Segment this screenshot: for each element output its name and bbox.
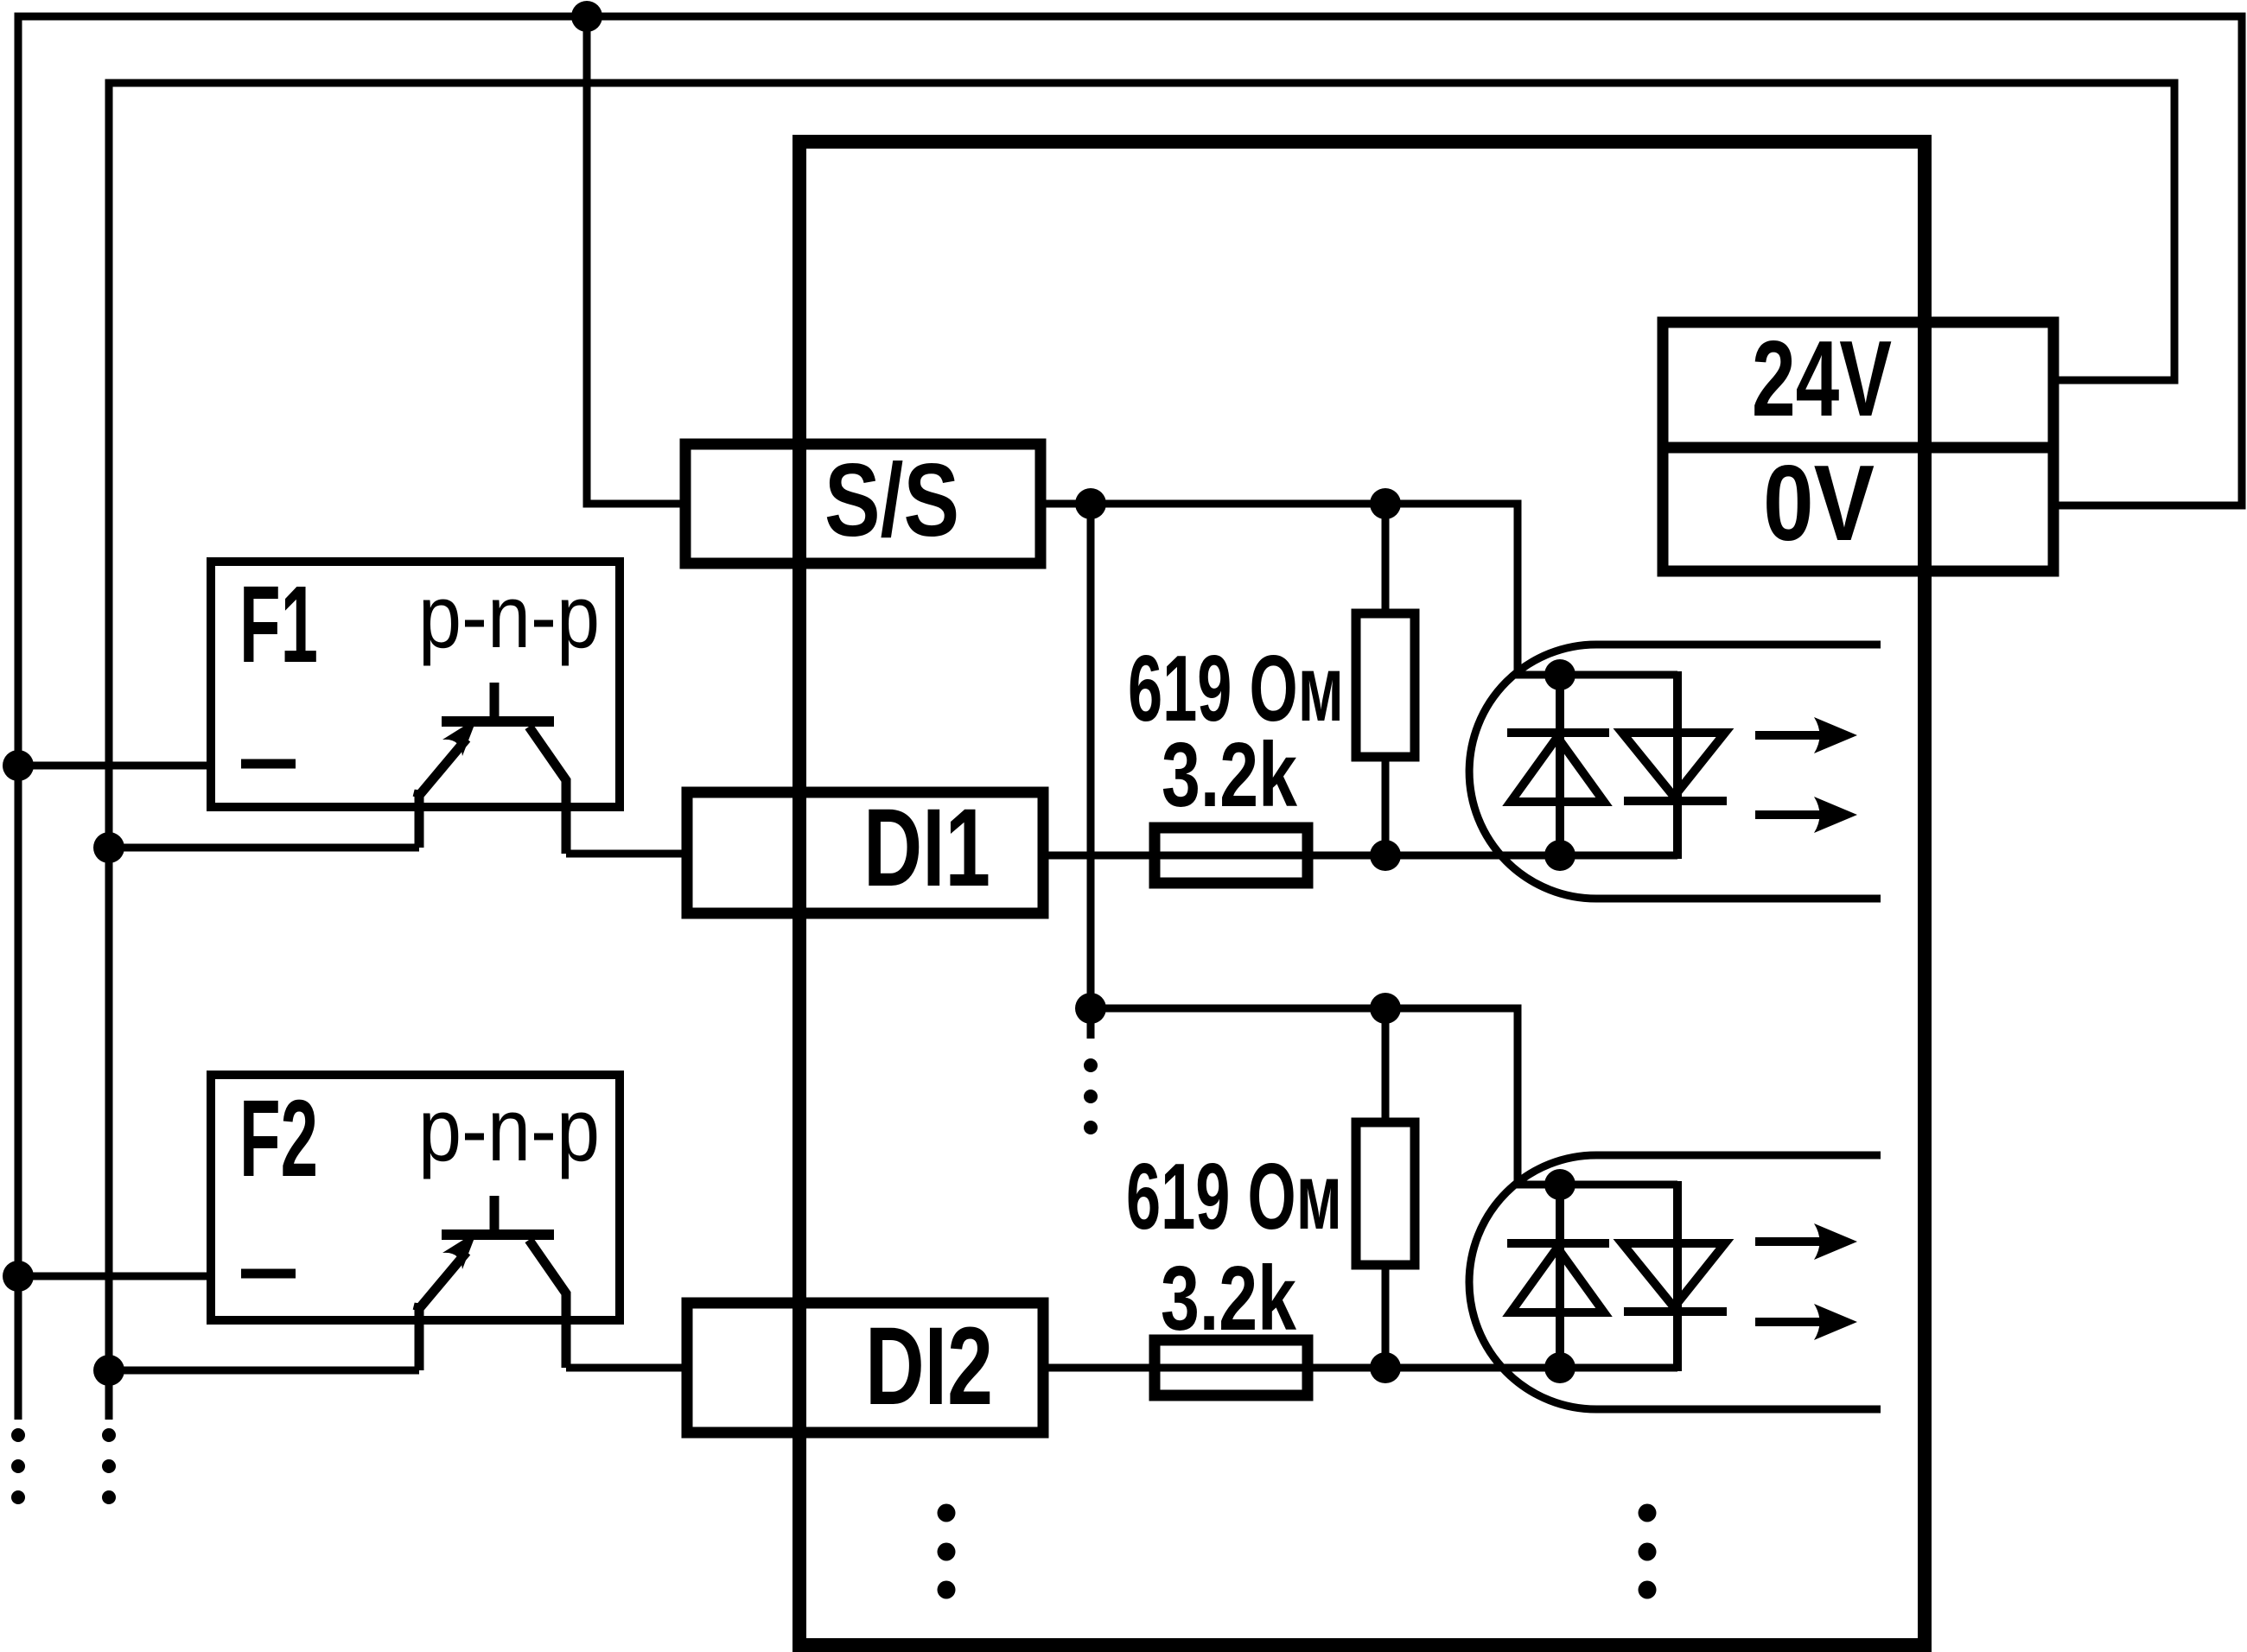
transistor Q2 emitter arrowhead <box>442 1231 477 1269</box>
wire S/S net to channel 1 <box>1041 504 1677 675</box>
wire F1 minus terminal from 24V rail <box>18 762 211 770</box>
divider of 24V / 0V terminal block <box>1663 442 2053 454</box>
ellipsis dots more sensors on 0V rail <box>102 1428 116 1504</box>
optocoupler U1 loop right side <box>1673 671 1682 859</box>
ellipsis dots below channel 2 branch node <box>1084 1058 1098 1134</box>
transistor Q2 emitter diagonal <box>417 1252 467 1311</box>
svg-text:DI2: DI2 <box>865 1305 993 1428</box>
junction LED1 anode top <box>1544 659 1575 690</box>
wire F2 minus terminal from 24V rail <box>18 1273 211 1280</box>
device unit thick enclosure box <box>799 142 1925 1645</box>
svg-text:0V: 0V <box>1763 444 1875 563</box>
junction 24V rail / F2 minus wire <box>3 1261 34 1292</box>
wire F2 emitter from 0V rail <box>109 1367 419 1375</box>
optocoupler U1 bottom tangent line <box>1596 895 1881 903</box>
minus terminal mark of F2 <box>241 1269 296 1279</box>
transistor Q2 base stub <box>490 1196 500 1235</box>
transistor Q1 collector diagonal and lead down <box>529 727 566 854</box>
optocoupler U1 top tangent line <box>1596 641 1881 649</box>
diode D1b triangle down <box>1622 733 1725 797</box>
resistor R2 619 Ом body <box>1356 1122 1415 1265</box>
resistor R1 619 Ом body <box>1356 613 1415 757</box>
terminal DI1 box <box>687 792 1043 913</box>
transistor Q2 emitter lead with jog to emitter wire <box>417 1304 419 1370</box>
diode D2a triangle up <box>1511 1248 1604 1312</box>
resistor R3 3.2k body channel 1 <box>1155 828 1308 883</box>
junction 0V rail / F2 emitter wire <box>93 1355 124 1386</box>
wire from top rail junction down to S/S terminal <box>587 13 685 504</box>
wire DI1 to optocoupler channel 1 <box>1043 852 1677 860</box>
diode D2a cathode bar <box>1507 1239 1609 1248</box>
resistor R1 619 Ом vertical lead top <box>1382 504 1390 613</box>
svg-text:DI1: DI1 <box>863 786 990 910</box>
junction DI1 net / R1 bottom <box>1370 840 1401 871</box>
arrow output channel 2 upper <box>1755 1223 1857 1260</box>
wire F2 collector to DI2 terminal <box>566 1364 685 1372</box>
junction channel 2 / R2 divider <box>1370 993 1401 1024</box>
diode D2b cathode bar <box>1624 1307 1727 1316</box>
optocoupler U1 LED branch vertical <box>1556 675 1564 855</box>
sensor F1 box <box>211 562 620 807</box>
wire DI2 to optocoupler channel 2 <box>1043 1364 1677 1372</box>
junction LED2 anode top <box>1544 1169 1575 1200</box>
transistor Q1 base stub <box>490 683 500 721</box>
junction channel 2 branch node <box>1075 993 1106 1024</box>
wire 0V loop: second rail, left drop, right drop to 24V terminal <box>109 83 2174 1420</box>
diode D1a triangle up <box>1511 737 1604 802</box>
minus terminal mark of F1 <box>241 759 296 769</box>
svg-text:619 Ом: 619 Ом <box>1126 1144 1342 1249</box>
arrow output channel 1 lower <box>1755 797 1857 833</box>
resistor R1 lead bottom <box>1382 757 1390 855</box>
junction S/S net / branch drop <box>1075 488 1106 519</box>
svg-text:F1: F1 <box>239 563 318 685</box>
svg-text:24V: 24V <box>1752 320 1892 439</box>
junction LED2 cathode bottom <box>1544 1352 1575 1383</box>
optocoupler U2 bottom tangent line <box>1596 1406 1881 1414</box>
optocoupler U2 top tangent line <box>1596 1152 1881 1160</box>
junction 0V rail / F1 emitter wire <box>93 832 124 863</box>
junction 24V rail / F1 minus wire <box>3 750 34 781</box>
svg-text:3.2k: 3.2k <box>1161 1248 1297 1350</box>
sensor F2 box <box>211 1075 620 1320</box>
optocoupler U2 circle <box>1469 1155 1596 1409</box>
terminal DI2 box <box>687 1303 1043 1433</box>
svg-text:F2: F2 <box>239 1077 318 1199</box>
wire S/S branch drop to channel 2 <box>1091 504 1677 1185</box>
wire F1 collector to DI1 terminal <box>566 850 685 858</box>
terminal block 24V / 0V box <box>1663 322 2053 571</box>
ellipsis dots more sensors on 24V rail <box>11 1428 25 1504</box>
junction DI2 net / R2 bottom <box>1370 1352 1401 1383</box>
svg-text:p-n-p: p-n-p <box>418 567 600 666</box>
optocoupler U2 LED branch vertical <box>1556 1185 1564 1368</box>
junction LED1 cathode bottom <box>1544 840 1575 871</box>
junction top rail to S/S drop <box>571 1 602 32</box>
transistor Q2 (p-n-p output of sensor F2): base bar <box>442 1229 554 1240</box>
wire stub below channel 2 branch node <box>1087 1008 1095 1039</box>
ellipsis dots more DI inputs <box>938 1504 956 1599</box>
svg-text:S/S: S/S <box>824 442 959 558</box>
svg-text:p-n-p: p-n-p <box>418 1080 600 1179</box>
wire F1 emitter from 0V rail <box>109 844 419 852</box>
transistor Q1 emitter diagonal <box>417 739 467 797</box>
svg-text:3.2k: 3.2k <box>1162 724 1298 826</box>
diode D1b cathode bar <box>1624 797 1727 805</box>
optocoupler U2 loop right side <box>1673 1181 1682 1371</box>
transistor Q1 emitter arrowhead <box>442 718 477 756</box>
ellipsis dots more optocoupler channels <box>1639 1504 1657 1599</box>
resistor R2 619 Ом vertical lead top channel 2 <box>1382 1008 1390 1122</box>
diode D1a cathode bar <box>1507 728 1609 737</box>
resistor R2 lead bottom <box>1382 1265 1390 1368</box>
transistor Q2 collector diagonal and lead down <box>529 1240 566 1368</box>
junction S/S net / R1 divider <box>1370 488 1401 519</box>
optocoupler U1 circle <box>1469 645 1596 899</box>
resistor R4 3.2k body channel 2 <box>1155 1340 1308 1395</box>
arrow output channel 1 upper <box>1755 717 1857 753</box>
transistor Q1 emitter lead with jog to emitter wire <box>417 791 419 848</box>
arrow output channel 2 lower <box>1755 1304 1857 1340</box>
diode D2b triangle down <box>1622 1243 1725 1307</box>
transistor Q1 (p-n-p output of sensor F1): base bar <box>442 716 554 727</box>
terminal S/S box <box>685 444 1041 563</box>
